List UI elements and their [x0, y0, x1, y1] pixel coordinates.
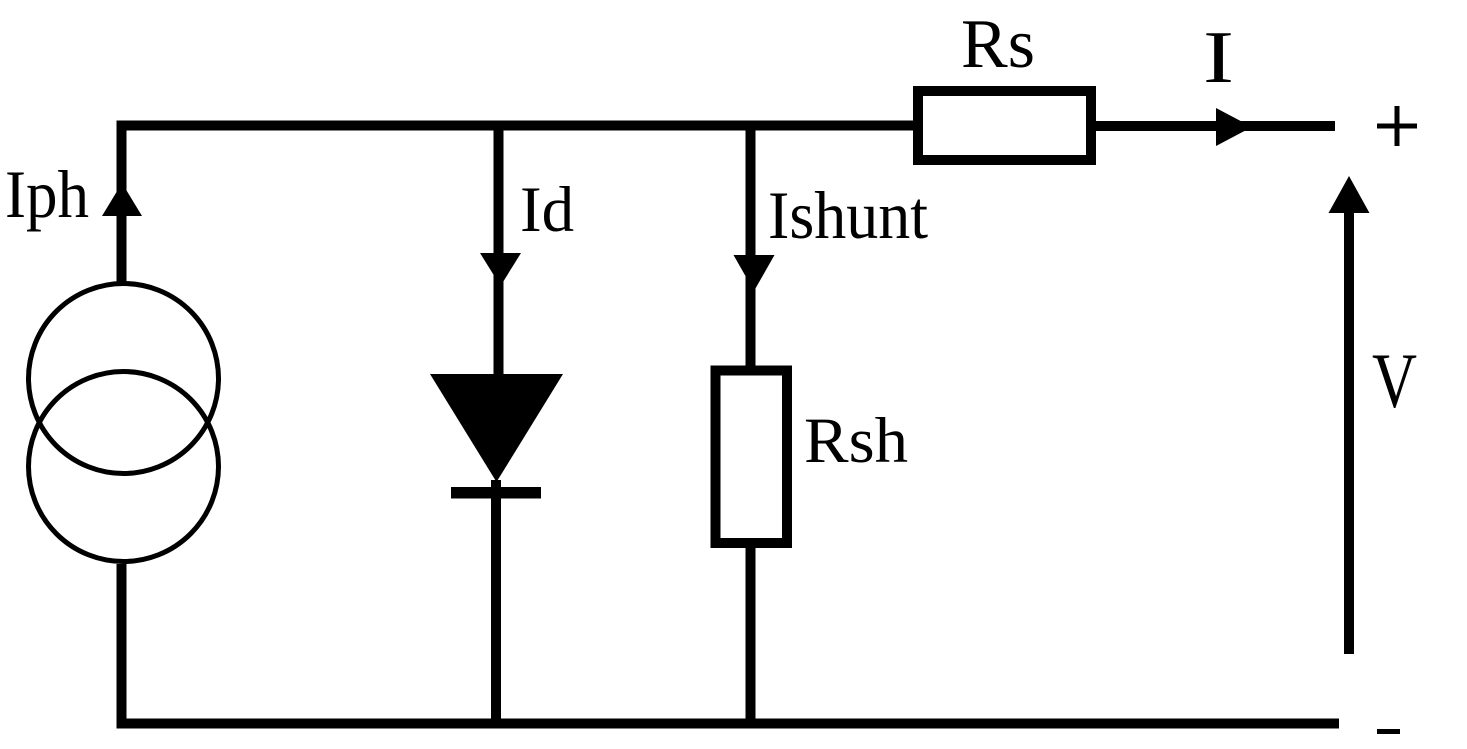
svg-text:Ishunt: Ishunt — [768, 177, 928, 253]
svg-text:Rs: Rs — [961, 6, 1035, 83]
svg-text:I: I — [1203, 17, 1234, 99]
svg-text:Id: Id — [520, 174, 574, 246]
svg-text:Rsh: Rsh — [804, 405, 908, 477]
svg-text:Iph: Iph — [5, 156, 89, 232]
svg-text:V: V — [1372, 337, 1417, 424]
